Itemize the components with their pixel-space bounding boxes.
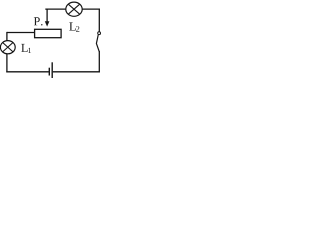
- wire right vertical upper: [98, 9, 100, 32]
- lamp L2: [66, 2, 82, 16]
- wire left vertical upper: [6, 32, 8, 41]
- switch S: [96, 32, 100, 52]
- label L2: [69, 22, 79, 31]
- wire top left segment: [45, 8, 66, 10]
- label P: [34, 17, 43, 25]
- lamp L1: [0, 41, 15, 54]
- wire top right segment: [82, 8, 100, 10]
- wire right vertical lower: [98, 51, 100, 72]
- wire left vertical lower: [6, 54, 8, 72]
- resistor P (rheostat box): [35, 29, 62, 37]
- battery negative plate (short): [48, 68, 50, 76]
- wire bottom left segment: [6, 71, 49, 73]
- wire rheostat left terminal: [7, 32, 35, 34]
- wire bottom right segment: [53, 71, 100, 73]
- battery positive plate (long): [51, 62, 53, 78]
- label L1: [21, 44, 31, 53]
- rheostat slider arrow: [45, 9, 50, 27]
